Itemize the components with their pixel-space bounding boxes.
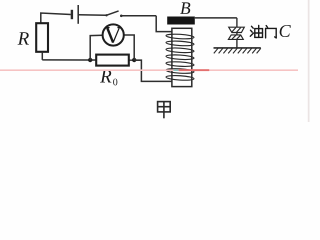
wire: down from switch to coil top lead bbox=[156, 16, 172, 32]
resistor R bbox=[36, 23, 48, 52]
wire: bar B to valve bbox=[195, 17, 237, 19]
wire: voltmeter left lead bbox=[90, 35, 103, 60]
throttle valve C lower body bbox=[228, 35, 243, 40]
switch blade (open) bbox=[106, 11, 118, 15]
wire: top wire from resistor R to battery bbox=[41, 13, 71, 23]
switch fixed contact and wire to the right bbox=[120, 15, 123, 18]
svg-text:C: C bbox=[279, 21, 292, 41]
label 门 (gate) bbox=[266, 26, 277, 38]
wire: bottom wire of left loop bbox=[42, 59, 141, 61]
coil turns bbox=[166, 33, 194, 80]
node: junction right of R0 bbox=[132, 58, 136, 62]
wire: resistor R bottom lead bbox=[41, 52, 43, 60]
label 油 (oil) bbox=[250, 25, 262, 37]
battery (short negative bar) bbox=[71, 10, 73, 19]
svg-text:R: R bbox=[17, 29, 30, 50]
node: junction left of R0 bbox=[88, 58, 92, 62]
ground bbox=[214, 48, 261, 54]
resistor R0 bbox=[96, 55, 129, 66]
label 甲 (figure label) bbox=[158, 102, 171, 119]
throttle valve C upper body bbox=[229, 27, 245, 32]
voltmeter V (meter circle) bbox=[103, 24, 124, 45]
wire: battery to switch pivot bbox=[78, 14, 106, 17]
svg-text:0: 0 bbox=[113, 77, 118, 88]
electromagnet coil core bbox=[172, 28, 192, 86]
svg-text:B: B bbox=[180, 0, 191, 18]
wire: voltmeter right lead bbox=[124, 35, 134, 60]
voltmeter V letter bbox=[106, 28, 121, 43]
valve stem bbox=[236, 18, 238, 48]
battery (long positive bar) bbox=[77, 5, 79, 24]
wire: right junction down to coil bottom lead bbox=[134, 60, 172, 81]
armature bar B bbox=[167, 17, 195, 25]
